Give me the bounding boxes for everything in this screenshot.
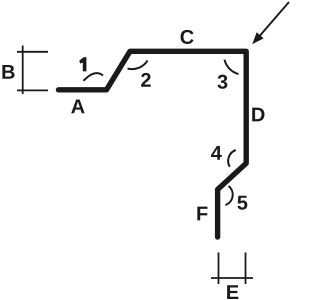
angle arc 3 [225, 60, 239, 74]
angle arc 5 [226, 186, 233, 205]
label 5 [237, 196, 247, 210]
dimension B top extension line [17, 51, 48, 53]
arrow head [252, 32, 263, 44]
label 3 [217, 75, 227, 89]
dimension E left extension line [218, 253, 220, 285]
label B [2, 65, 14, 79]
angle arc 1 [84, 73, 104, 81]
label 4 [211, 146, 222, 160]
label C [181, 30, 194, 44]
profile flashing outline A-C-D-F [59, 51, 247, 237]
dimension B bottom extension line [17, 89, 48, 91]
label D [252, 108, 264, 122]
label 2 [141, 73, 151, 87]
angle arc 2 [128, 61, 148, 70]
dimension B vertical line [22, 46, 24, 95]
dimension E horizontal line [211, 277, 253, 279]
label 1 [79, 57, 86, 71]
arrow line [258, 2, 289, 38]
dimension E right extension line [245, 253, 247, 285]
label A [71, 99, 84, 113]
label E [227, 285, 238, 299]
angle arc 4 [228, 150, 236, 167]
label F [197, 207, 207, 221]
